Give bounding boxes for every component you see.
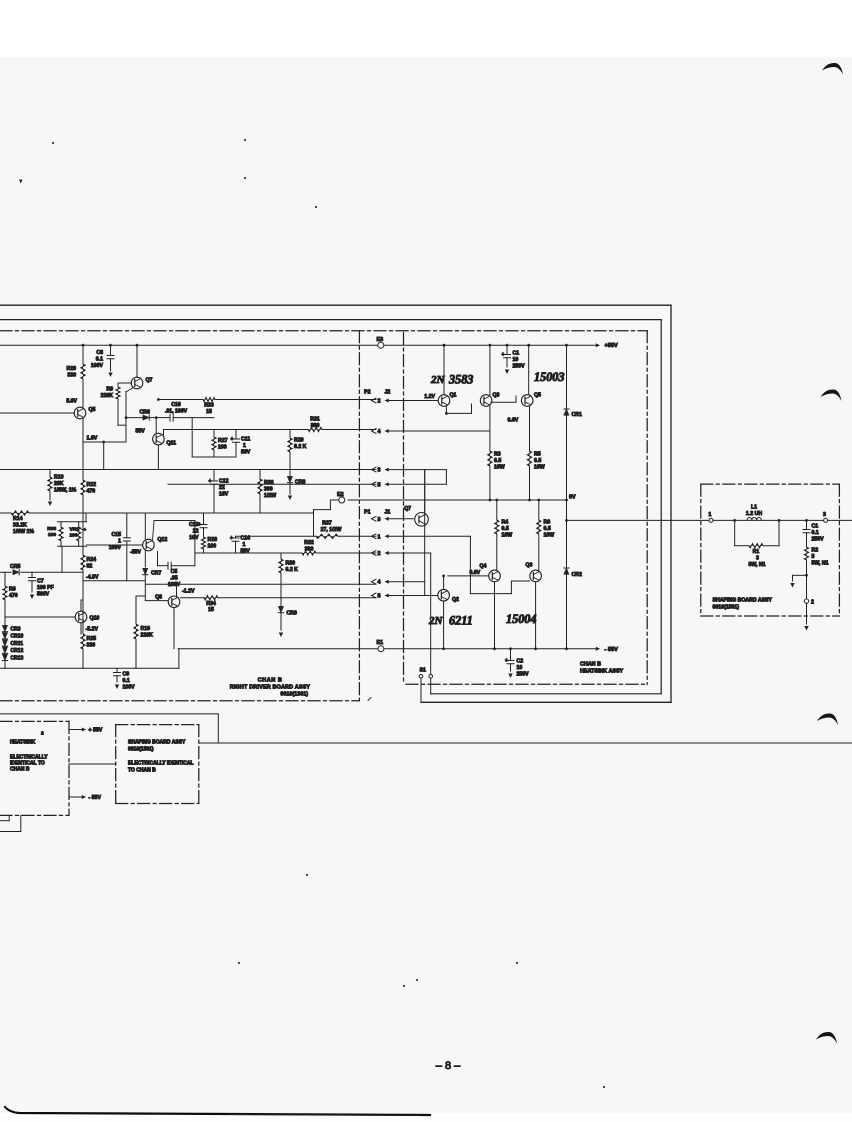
svg-text:SHAPING BOARD ASSY: SHAPING BOARD ASSY [713, 598, 773, 604]
svg-text:50V: 50V [241, 450, 251, 456]
svg-text:R1: R1 [753, 549, 760, 555]
svg-text:R36: R36 [264, 480, 274, 486]
svg-text:E2: E2 [337, 492, 344, 498]
svg-text:R3: R3 [494, 452, 501, 458]
svg-text:CR6: CR6 [140, 410, 150, 416]
svg-text:100: 100 [218, 445, 227, 451]
svg-text:+: + [505, 658, 508, 664]
svg-text:3: 3 [756, 556, 759, 562]
svg-text:R19: R19 [54, 475, 64, 481]
svg-text:250V: 250V [812, 537, 825, 543]
svg-text:HEATSINK: HEATSINK [10, 740, 36, 746]
svg-text:82: 82 [87, 564, 93, 570]
svg-text:0.5: 0.5 [544, 526, 551, 532]
svg-text:1: 1 [709, 512, 712, 518]
svg-text:1: 1 [378, 534, 381, 540]
svg-text:500V: 500V [37, 592, 50, 598]
svg-text:Q12: Q12 [158, 537, 168, 543]
svg-text:5: 5 [378, 482, 381, 488]
svg-text:HEATSINK ASSY: HEATSINK ASSY [580, 669, 624, 675]
svg-text:100: 100 [70, 533, 78, 539]
svg-text:0010(1501): 0010(1501) [713, 605, 740, 611]
svg-text:0.1: 0.1 [123, 678, 130, 684]
svg-text:R6: R6 [544, 520, 551, 526]
svg-text:R37: R37 [322, 521, 332, 527]
svg-text:1: 1 [243, 542, 246, 548]
svg-text:C10: C10 [171, 402, 181, 408]
svg-text:Q5: Q5 [534, 393, 541, 399]
svg-text:TO CHAN B: TO CHAN B [128, 768, 156, 774]
svg-text:R5: R5 [534, 452, 541, 458]
svg-text:2: 2 [378, 551, 381, 557]
svg-text:R28: R28 [208, 537, 218, 543]
svg-text:CHAN B: CHAN B [580, 662, 601, 668]
svg-text:10: 10 [513, 357, 519, 363]
svg-text:Q4: Q4 [480, 564, 487, 570]
svg-text:55V: 55V [136, 429, 146, 435]
svg-text:C12: C12 [219, 479, 229, 485]
svg-text:R34: R34 [206, 601, 216, 607]
svg-text:390: 390 [305, 547, 314, 553]
svg-text:Q11: Q11 [167, 441, 177, 447]
svg-text:R31: R31 [310, 417, 320, 423]
svg-text:0V: 0V [569, 495, 576, 501]
svg-text:4: 4 [378, 580, 381, 586]
svg-text:Q10: Q10 [90, 616, 100, 622]
svg-text:0.1: 0.1 [96, 357, 103, 363]
svg-text:CR10: CR10 [11, 634, 24, 640]
svg-text:15004: 15004 [506, 612, 536, 626]
svg-text:CR13: CR13 [11, 655, 24, 661]
svg-text:2: 2 [41, 731, 44, 737]
svg-text:CR2: CR2 [572, 572, 582, 578]
svg-text:E1: E1 [377, 640, 384, 646]
svg-text:+55V: +55V [605, 343, 618, 349]
svg-text:5W, N1: 5W, N1 [812, 561, 829, 567]
svg-text:CR5: CR5 [10, 564, 20, 570]
svg-text:1/8W, 1%: 1/8W, 1% [54, 488, 77, 494]
svg-text:P2: P2 [364, 390, 370, 396]
svg-text:-5.2V: -5.2V [86, 627, 99, 633]
svg-text:0.1: 0.1 [812, 530, 819, 536]
svg-text:- 55V: - 55V [89, 795, 102, 801]
svg-text:5: 5 [812, 554, 815, 560]
svg-text:Q7: Q7 [404, 506, 411, 512]
svg-text:+: + [209, 479, 212, 485]
svg-text:4: 4 [378, 429, 381, 435]
svg-text:+ 55V: + 55V [89, 728, 103, 734]
svg-text:Q2: Q2 [452, 597, 459, 603]
svg-text:CR8: CR8 [295, 480, 305, 486]
svg-text:33.2K: 33.2K [13, 523, 27, 529]
svg-text:R33: R33 [204, 403, 214, 409]
svg-text:5W, N1: 5W, N1 [748, 562, 765, 568]
svg-text:SHAPING BOARD ASSY: SHAPING BOARD ASSY [128, 740, 186, 746]
svg-text:15: 15 [208, 607, 214, 613]
svg-text:10W: 10W [544, 533, 555, 539]
svg-text:RIGHT DRIVER BOARD ASSY: RIGHT DRIVER BOARD ASSY [230, 685, 311, 691]
svg-text:15003: 15003 [534, 370, 564, 384]
svg-text:Q1: Q1 [450, 393, 457, 399]
svg-text:390: 390 [311, 423, 320, 429]
svg-text:1.8V: 1.8V [87, 436, 98, 442]
svg-text:+: + [231, 437, 234, 443]
svg-text:3: 3 [823, 512, 826, 518]
svg-text:0010(1501): 0010(1501) [128, 747, 154, 753]
svg-text:15: 15 [206, 409, 212, 415]
svg-text:R27: R27 [218, 438, 228, 444]
svg-text:470: 470 [9, 593, 18, 599]
svg-text:CR11: CR11 [11, 641, 24, 647]
svg-text:1/2W: 1/2W [264, 493, 276, 499]
svg-text:.01, 100V: .01, 100V [165, 409, 188, 415]
svg-text:CHAN B: CHAN B [258, 678, 283, 684]
svg-text:.05: .05 [170, 576, 177, 582]
svg-text:100: 100 [208, 544, 217, 550]
svg-text:0.6V: 0.6V [470, 570, 481, 576]
svg-text:- 55V: - 55V [605, 647, 619, 653]
svg-text:R24: R24 [87, 557, 97, 563]
svg-text:22: 22 [193, 529, 199, 535]
svg-text:2: 2 [378, 399, 381, 405]
svg-text:-55V: -55V [130, 550, 141, 556]
svg-text:R20: R20 [66, 366, 76, 372]
svg-text:C13: C13 [189, 522, 199, 528]
svg-text:27, 1/2W: 27, 1/2W [321, 527, 342, 533]
svg-text:– 8 –: – 8 – [436, 1060, 461, 1072]
svg-text:16V: 16V [219, 492, 229, 498]
svg-text:R2: R2 [812, 548, 819, 554]
svg-text:250V: 250V [517, 672, 530, 678]
svg-text:100 PF: 100 PF [37, 585, 54, 591]
svg-text:2N: 2N [430, 374, 446, 386]
svg-text:CR12: CR12 [11, 648, 24, 654]
svg-text:J2: J2 [385, 390, 391, 396]
svg-text:0.6V: 0.6V [508, 418, 519, 424]
svg-text:1: 1 [243, 443, 246, 449]
svg-text:CHAN B: CHAN B [10, 767, 30, 773]
svg-text:22: 22 [219, 485, 225, 491]
svg-text:R29: R29 [294, 438, 304, 444]
svg-text:470: 470 [87, 489, 96, 495]
svg-text:6211: 6211 [449, 614, 473, 628]
svg-text:CR1: CR1 [572, 412, 582, 418]
svg-text:Q5: Q5 [89, 407, 96, 413]
svg-text:Q6: Q6 [526, 563, 533, 569]
svg-text:P1: P1 [364, 510, 370, 516]
svg-text:3: 3 [378, 517, 381, 523]
svg-text:R4: R4 [502, 520, 509, 526]
svg-text:C8: C8 [96, 350, 103, 356]
svg-text:8.2 K: 8.2 K [286, 567, 299, 573]
svg-text:Q8: Q8 [155, 595, 162, 601]
svg-text:1/8W 1%: 1/8W 1% [13, 529, 34, 535]
svg-text:10W: 10W [494, 465, 505, 471]
svg-text:CR3: CR3 [11, 627, 21, 633]
svg-text:CR7: CR7 [151, 571, 161, 577]
svg-text:3583: 3583 [448, 373, 473, 387]
svg-text:+: + [230, 536, 233, 542]
svg-text:R22: R22 [87, 482, 97, 488]
svg-text:R32: R32 [304, 540, 314, 546]
svg-text:330: 330 [87, 643, 96, 649]
svg-text:8.2 K: 8.2 K [294, 444, 307, 450]
svg-text:10: 10 [517, 665, 523, 671]
svg-text:330: 330 [67, 373, 76, 379]
svg-text:VR1: VR1 [70, 527, 80, 533]
svg-text:R9: R9 [106, 387, 113, 393]
svg-text:R10: R10 [141, 626, 151, 632]
svg-text:S1: S1 [420, 668, 426, 674]
svg-text:0010(1301): 0010(1301) [280, 692, 308, 698]
svg-text:Q3: Q3 [493, 393, 500, 399]
svg-text:+: + [502, 352, 505, 358]
svg-text:J1: J1 [385, 510, 391, 516]
svg-text:-4.8V: -4.8V [86, 575, 99, 581]
svg-text:390: 390 [264, 487, 273, 493]
svg-text:C11: C11 [241, 437, 250, 443]
svg-text:0.5: 0.5 [494, 458, 501, 464]
svg-text:ELECTRICALLY IDENTICAL: ELECTRICALLY IDENTICAL [128, 761, 194, 767]
svg-text:50V: 50V [241, 549, 251, 555]
svg-text:100: 100 [48, 532, 56, 538]
svg-text:100V: 100V [123, 685, 136, 691]
svg-text:C1: C1 [812, 524, 819, 530]
svg-text:0.5: 0.5 [502, 526, 509, 532]
svg-text:CR9: CR9 [287, 611, 297, 617]
svg-text:R36: R36 [47, 526, 56, 532]
svg-text:100V: 100V [109, 545, 122, 551]
svg-text:R30: R30 [286, 561, 296, 567]
svg-text:16V: 16V [189, 535, 199, 541]
svg-text:5.6V: 5.6V [66, 399, 77, 405]
svg-text:R25: R25 [87, 636, 97, 642]
svg-text:R14: R14 [13, 516, 23, 522]
svg-text:250V: 250V [513, 364, 526, 370]
svg-text:-1.2V: -1.2V [182, 588, 195, 594]
svg-text:2: 2 [811, 600, 814, 606]
svg-text:C9: C9 [123, 672, 130, 678]
svg-text:Q7: Q7 [146, 378, 153, 384]
svg-text:C7: C7 [37, 579, 44, 585]
svg-text:C5: C5 [171, 569, 178, 575]
svg-text:E3: E3 [377, 337, 384, 343]
svg-text:L1: L1 [751, 505, 757, 511]
svg-text:0.5: 0.5 [534, 458, 541, 464]
svg-text:100V: 100V [91, 363, 104, 369]
svg-text:1.2 UH: 1.2 UH [746, 511, 762, 517]
svg-text:10W: 10W [502, 533, 513, 539]
svg-text:1.2V: 1.2V [424, 394, 435, 400]
svg-text:220K: 220K [141, 633, 154, 639]
svg-text:C1: C1 [513, 351, 520, 357]
svg-text:C15: C15 [111, 532, 121, 538]
svg-text:20K: 20K [54, 481, 64, 487]
svg-text:3: 3 [378, 468, 381, 474]
svg-text:10W: 10W [534, 465, 545, 471]
svg-text:C2: C2 [517, 659, 524, 665]
svg-text:R6: R6 [9, 587, 16, 593]
svg-text:5: 5 [378, 594, 381, 600]
svg-text:100V: 100V [168, 582, 181, 588]
svg-text:220K: 220K [101, 393, 114, 399]
svg-text:1: 1 [118, 539, 121, 545]
